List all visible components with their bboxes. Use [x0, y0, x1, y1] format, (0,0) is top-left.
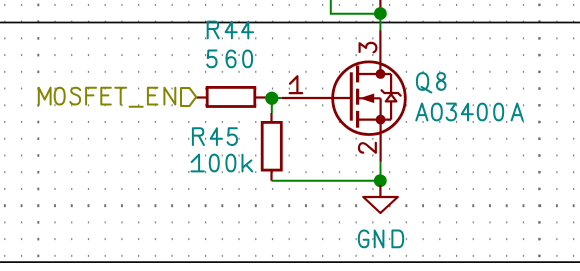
text GND	[359, 231, 369, 248]
R44 right pin	[255, 96, 272, 98]
pin number 2	[359, 143, 376, 153]
grid accent dots	[4, 204, 6, 207]
junction gate node	[265, 92, 278, 105]
Q8 body diode cathode bar	[382, 90, 401, 95]
Q8 channel middle segment	[356, 89, 359, 105]
label text MOSFET_EN	[39, 88, 51, 105]
pin number 1	[290, 76, 302, 93]
Q8 gate bar	[350, 72, 353, 120]
Q8 gate pin 1	[282, 97, 351, 99]
Q8 source arrow head	[360, 94, 375, 104]
resistor R44 body	[207, 87, 255, 106]
Q8 source connect vertical	[380, 98, 382, 119]
junction gnd node	[374, 174, 387, 187]
R45 bottom pin	[270, 170, 272, 181]
pin number 3	[360, 43, 377, 52]
Q8 pin 2 source line	[380, 120, 382, 162]
text AO3400A value	[416, 104, 427, 121]
Q8 source arrow line	[359, 97, 381, 99]
text Q8 reference	[417, 73, 431, 92]
Q8 internal source dot	[376, 115, 386, 125]
frame bottom edge	[0, 261, 580, 263]
Q8 drain stub	[358, 73, 392, 75]
wire R45 bottom to gnd node	[272, 180, 381, 182]
Q8 internal drain dot	[376, 69, 386, 79]
frame top edge	[0, 22, 580, 24]
Q8 body diode branch	[390, 74, 392, 120]
wire junction to pin3	[379, 14, 381, 31]
wire source to gnd node	[380, 162, 382, 181]
Q8 channel top segment	[356, 66, 359, 83]
R45 top pin	[270, 113, 272, 122]
resistor R45 body	[262, 122, 281, 170]
Q8 pin 3 drain line	[379, 31, 381, 75]
label pin to R44	[196, 96, 207, 98]
wire gate node right stub	[272, 97, 282, 99]
global label MOSFET_EN shape	[181, 88, 196, 106]
text 100k value	[191, 155, 203, 172]
Q8 channel bottom segment	[356, 111, 359, 128]
junction top	[374, 7, 387, 20]
wire top-left elbow	[331, 0, 381, 14]
Q8 source stub	[358, 118, 392, 120]
text 560 value	[207, 51, 216, 68]
Q8 body diode triangle	[386, 94, 397, 101]
ground stem	[379, 185, 381, 197]
wire gate node down stub	[271, 98, 273, 113]
transistor Q8 body circle	[333, 62, 406, 135]
text R44 reference	[208, 22, 219, 39]
pin stub above junction	[379, 0, 381, 8]
text R45 reference	[193, 128, 204, 145]
ground triangle	[363, 197, 398, 213]
